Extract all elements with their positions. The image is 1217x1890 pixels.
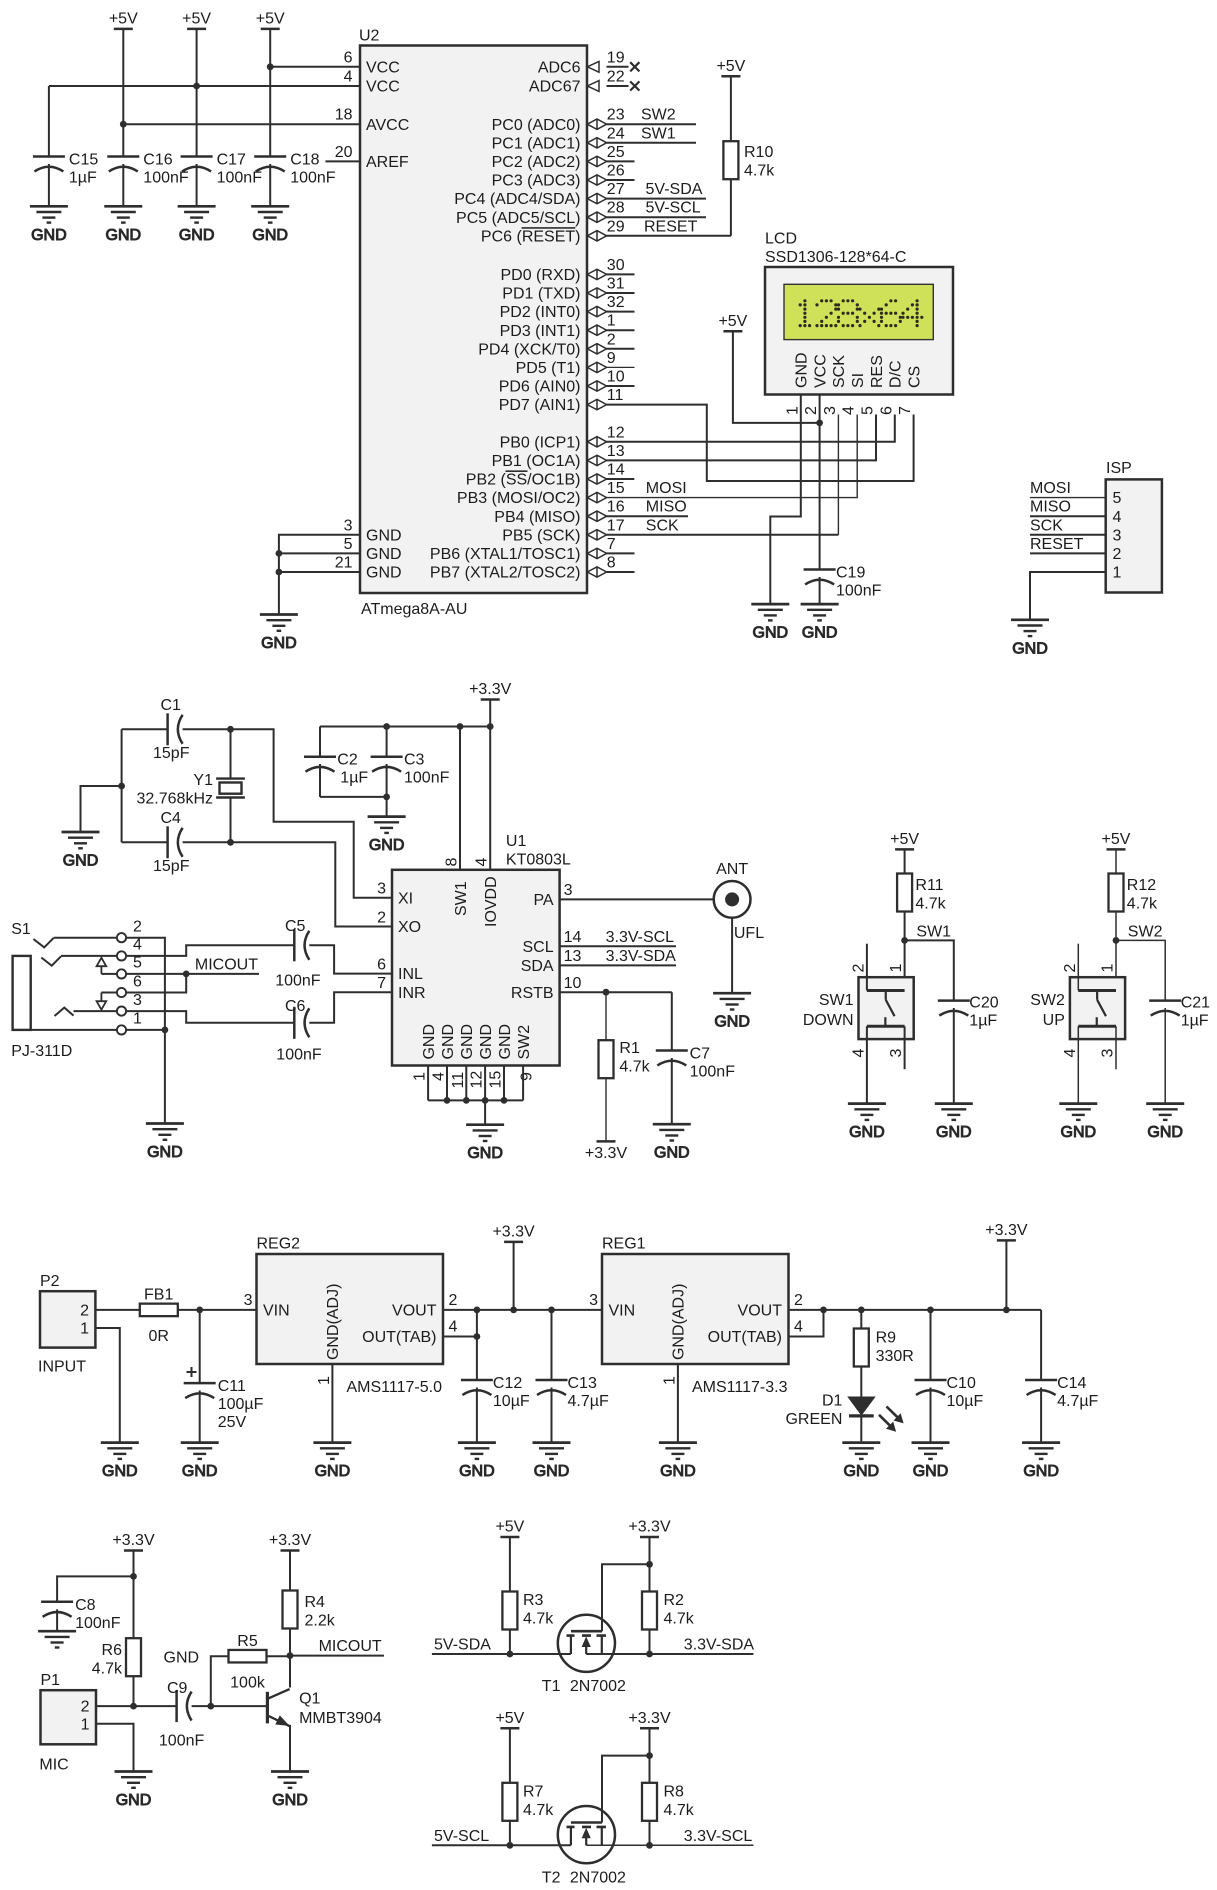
svg-text:VCC: VCC (366, 59, 400, 76)
wire +5V to R12 (1115, 849, 1117, 873)
wire U2 pin19 stub (607, 66, 629, 68)
svg-text:17: 17 (607, 517, 625, 534)
transistor T1 2N7002 (558, 1615, 615, 1672)
svg-text:31: 31 (607, 276, 625, 293)
svg-text:Q1: Q1 (299, 1691, 320, 1708)
junction Y1 bottom (227, 839, 234, 846)
capacitor C1 (168, 713, 183, 745)
svg-text:3: 3 (133, 992, 142, 1009)
capacitor C7 (656, 1051, 688, 1066)
svg-text:1: 1 (81, 1716, 90, 1733)
wire Q1 collector (289, 1656, 291, 1688)
svg-text:4.7k: 4.7k (664, 1802, 695, 1819)
svg-text:C4: C4 (161, 810, 182, 827)
svg-text:SSD1306-128*64-C: SSD1306-128*64-C (765, 249, 906, 266)
U2 pin marker 10 (587, 381, 606, 391)
svg-text:C17: C17 (217, 152, 246, 169)
junction rail SW1 pin (457, 723, 464, 730)
svg-text:+3.3V: +3.3V (269, 1532, 312, 1549)
svg-text:2: 2 (449, 1292, 458, 1309)
svg-text:100nF: 100nF (275, 973, 321, 990)
wire ISP RESET (1030, 552, 1106, 554)
wire S1 bus to ground (164, 1030, 166, 1124)
svg-text:T2: T2 (542, 1869, 561, 1886)
svg-text:MMBT3904: MMBT3904 (299, 1710, 382, 1727)
power +5V (R12) (1102, 831, 1131, 850)
power +5V (C16 column) (109, 10, 138, 29)
capacitor C14 (1025, 1380, 1057, 1395)
svg-text:SCK: SCK (646, 517, 679, 534)
svg-text:SCK: SCK (1030, 517, 1063, 534)
wire S1 pin5 left (101, 973, 117, 975)
svg-text:PB0 (ICP1): PB0 (ICP1) (500, 434, 581, 451)
wire C14 to ground (1040, 1388, 1042, 1443)
svg-text:AMS1117-5.0: AMS1117-5.0 (347, 1379, 443, 1396)
wire C3 column bottom (386, 764, 388, 797)
svg-text:ANT: ANT (716, 861, 748, 878)
wire +3.3V to rail (right) (1005, 1240, 1007, 1310)
wire C12 to ground (476, 1388, 478, 1443)
junction VCC6 / C18 (267, 63, 274, 70)
svg-text:VIN: VIN (263, 1302, 290, 1319)
svg-text:U1: U1 (506, 833, 527, 850)
wire SW1 pin stub (459, 727, 461, 870)
svg-text:RES: RES (869, 355, 886, 388)
wire C18 to ground (269, 164, 271, 206)
junction U1 ground bus (482, 1097, 489, 1104)
ground C16 (104, 206, 142, 244)
S1 switch lever pin 4 (41, 956, 61, 965)
power +3.3V (R8) (628, 1710, 671, 1729)
switch SW1 contacts (867, 991, 905, 1027)
U2 pin marker 17 (587, 530, 606, 540)
svg-text:C13: C13 (568, 1375, 597, 1392)
U2 pin marker 16 (587, 511, 606, 521)
svg-text:SW1: SW1 (453, 881, 470, 916)
power +5V (C17 column) (182, 10, 211, 29)
wire U2 PD stub (607, 348, 635, 350)
svg-text:GND: GND (147, 1144, 183, 1161)
svg-text:PA: PA (533, 892, 553, 909)
svg-text:GND: GND (660, 1463, 696, 1480)
wire net SCK PB5 row (607, 534, 839, 536)
svg-text:1: 1 (133, 1011, 142, 1028)
wire U1 bottom pin stub (522, 1066, 524, 1101)
svg-text:24: 24 (607, 125, 625, 142)
wire +5V column C16 (122, 29, 124, 157)
wire +3.3V rail (320, 726, 490, 728)
ground C15 (30, 206, 68, 244)
svg-text:PC6 (RESET): PC6 (RESET) (481, 228, 581, 245)
wire +5V column C18 (269, 29, 271, 157)
svg-text:16: 16 (607, 499, 625, 516)
svg-text:19: 19 (607, 49, 625, 66)
svg-text:100k: 100k (230, 1675, 266, 1692)
capacitor C16 (107, 157, 139, 172)
svg-text:4: 4 (449, 1318, 458, 1335)
svg-text:GND: GND (31, 227, 67, 244)
svg-text:GND: GND (478, 1024, 495, 1060)
svg-text:C9: C9 (167, 1680, 188, 1697)
svg-text:4.7k: 4.7k (92, 1661, 123, 1678)
svg-text:SDA: SDA (521, 958, 554, 975)
svg-text:18: 18 (335, 107, 353, 124)
svg-text:R10: R10 (744, 144, 773, 161)
capacitor C8 (41, 1602, 73, 1617)
IC U2 ATmega8A-AU body (360, 46, 587, 594)
ground D1 (842, 1443, 880, 1481)
svg-text:C12: C12 (493, 1375, 522, 1392)
wire R12 to switch pin1 (1115, 912, 1117, 991)
wire REG2 GND pin (331, 1364, 333, 1443)
wire net SW1 to C20 (905, 940, 954, 1000)
wire ISP MOSI (1030, 497, 1106, 499)
wire R6 bottom (133, 1676, 135, 1706)
resistor R1 (599, 1040, 614, 1078)
junction R2 / 3.3V-SDA (646, 1651, 653, 1658)
wire SW2 pin4 to ground (1077, 1026, 1079, 1103)
svg-text:29: 29 (607, 218, 625, 235)
wire net MICOUT (Q1) (290, 1655, 384, 1657)
svg-text:GND: GND (936, 1124, 972, 1141)
svg-text:T1: T1 (542, 1678, 561, 1695)
wire S1 pin4 left (61, 955, 117, 957)
svg-text:UFL: UFL (734, 925, 764, 942)
svg-text:XO: XO (398, 919, 421, 936)
junction rail +3.3V right (1003, 1307, 1010, 1314)
svg-text:7: 7 (607, 536, 616, 553)
wire +3.3V to rail (left) (513, 1242, 515, 1310)
svg-text:1µF: 1µF (340, 770, 368, 787)
svg-text:4: 4 (133, 937, 142, 954)
wire REG1 GND pin (677, 1364, 679, 1443)
ground U1 (466, 1125, 504, 1163)
svg-text:GND: GND (106, 227, 142, 244)
svg-text:5: 5 (1113, 490, 1122, 507)
junction VCC4 / C17 (193, 83, 200, 90)
power +3.3V (R4) (269, 1532, 312, 1551)
wire U2 pin8 stub (607, 571, 635, 573)
wire XTAL1 to U1 XI (183, 729, 392, 898)
capacitor C17 (181, 157, 213, 172)
wire R6 top (133, 1576, 135, 1638)
wire net 3.3V-SDA (586, 1653, 753, 1655)
svg-text:C7: C7 (690, 1046, 711, 1063)
ground REG1 (659, 1443, 697, 1481)
LCD display text 128x64 (dot matrix) (799, 299, 924, 327)
svg-text:PD7 (AIN1): PD7 (AIN1) (499, 397, 581, 414)
ground C8 (38, 1631, 76, 1647)
ground C14 (1022, 1443, 1060, 1481)
svg-text:IOVDD: IOVDD (483, 876, 500, 927)
junction AVCC / C16 (120, 121, 127, 128)
resistor R10 (723, 141, 738, 179)
svg-text:PD0 (RXD): PD0 (RXD) (500, 267, 580, 284)
svg-text:ADC6: ADC6 (538, 59, 581, 76)
wire S1 pin1 to bus (126, 1029, 165, 1031)
ground crystal (62, 832, 100, 870)
wire S1 pin6 to pin5 (126, 974, 186, 993)
svg-text:SW1: SW1 (916, 924, 951, 941)
wire R10 to RESET net (730, 179, 732, 236)
wire PD7 to LCD CS (607, 405, 914, 481)
wire LCD VCC column (819, 395, 821, 570)
ground C10 (912, 1443, 950, 1481)
svg-text:2N7002: 2N7002 (570, 1869, 626, 1886)
power +5V (R3) (495, 1519, 524, 1538)
wire Y1 bottom to C4 row (230, 798, 232, 843)
svg-text:GND: GND (366, 527, 402, 544)
wire SW1 pin4 to ground (866, 1026, 868, 1103)
svg-text:XI: XI (398, 890, 413, 907)
ground Q1 (271, 1772, 309, 1810)
wire S1 pin5 to MICOUT (126, 973, 186, 975)
ferrite bead FB1 (140, 1304, 178, 1317)
junction S1 ground bus (162, 1027, 169, 1034)
wire U2 pin26 stub (607, 179, 635, 181)
wire C13 column (551, 1310, 553, 1380)
S1 pin 4 circle (117, 951, 126, 960)
IC U1 KT0803L body (392, 870, 560, 1066)
power +5V (R10) (716, 58, 745, 77)
svg-text:PD1 (TXD): PD1 (TXD) (502, 286, 580, 303)
svg-text:3: 3 (564, 882, 573, 899)
svg-text:GND: GND (102, 1463, 138, 1480)
junction rail R9 (858, 1307, 865, 1314)
ground C20 (935, 1104, 973, 1142)
wire R8 to 3.3V-SCL (649, 1821, 651, 1846)
wire net 3.3V-SCL (560, 945, 676, 947)
svg-text:SW1: SW1 (641, 125, 676, 142)
svg-text:GND: GND (63, 853, 99, 870)
svg-text:GND: GND (164, 1650, 200, 1667)
svg-text:7: 7 (377, 975, 386, 992)
svg-text:S1: S1 (11, 921, 31, 938)
wire C13 to ground (551, 1388, 553, 1443)
svg-text:3: 3 (377, 881, 386, 898)
wire +5V to U2 AVCC (123, 123, 360, 125)
S1 pin 5 circle (117, 969, 126, 978)
regulator REG1 AMS1117-3.3 body (602, 1254, 789, 1364)
svg-text:2: 2 (377, 909, 386, 926)
svg-text:+3.3V: +3.3V (112, 1532, 155, 1549)
wire C21 to ground (1164, 1008, 1166, 1104)
svg-text:C2: C2 (337, 752, 358, 769)
svg-text:SW1: SW1 (819, 992, 854, 1009)
svg-text:8: 8 (444, 858, 461, 867)
svg-text:GND: GND (179, 227, 215, 244)
svg-text:100nF: 100nF (404, 770, 450, 787)
svg-text:4.7k: 4.7k (664, 1611, 695, 1628)
svg-text:26: 26 (607, 163, 625, 180)
svg-text:INR: INR (398, 985, 426, 1002)
svg-text:GND: GND (421, 1024, 438, 1060)
junction R7 / 5V-SCL (507, 1842, 514, 1849)
svg-text:7: 7 (897, 406, 914, 415)
svg-text:+3.3V: +3.3V (469, 681, 512, 698)
junction rail +3.3V left (510, 1307, 517, 1314)
svg-text:GND: GND (459, 1463, 495, 1480)
S1 tip contact arrow (up) (97, 958, 107, 974)
junction REG1 tab (820, 1307, 827, 1314)
junction crystal gnd branch (118, 783, 125, 790)
svg-text:15: 15 (488, 1071, 505, 1089)
svg-text:VOUT: VOUT (738, 1302, 783, 1319)
junction net SW2 (1113, 937, 1120, 944)
junction RSTB R1 C7 (603, 989, 610, 996)
svg-text:GND: GND (1147, 1124, 1183, 1141)
svg-text:PC1 (ADC1): PC1 (ADC1) (492, 135, 581, 152)
svg-text:C16: C16 (143, 152, 172, 169)
svg-text:5V-SCL: 5V-SCL (434, 1828, 489, 1845)
S1 switch lever pin 2 (34, 938, 54, 947)
svg-text:14: 14 (607, 462, 625, 479)
resistor R4 (283, 1591, 298, 1629)
wire U1 ground bus (428, 1099, 523, 1101)
power +5V (C18 column) (256, 10, 285, 29)
svg-text:MOSI: MOSI (1030, 480, 1071, 497)
wire U1 bottom pin stub (484, 1066, 486, 1101)
svg-text:GREEN: GREEN (785, 1411, 842, 1428)
ground ISP (1011, 620, 1049, 658)
junction C9 / R5 (207, 1703, 214, 1710)
junction C11 (196, 1307, 203, 1314)
svg-text:25V: 25V (218, 1414, 247, 1431)
connector ISP body (1106, 479, 1162, 592)
wire U2 pin22 stub (607, 85, 629, 87)
svg-text:R5: R5 (237, 1633, 258, 1650)
svg-text:GND: GND (315, 1463, 351, 1480)
svg-text:1: 1 (316, 1376, 333, 1385)
svg-text:R8: R8 (664, 1783, 685, 1800)
svg-text:OUT(TAB): OUT(TAB) (362, 1329, 436, 1346)
connector P1 body (41, 1690, 97, 1744)
ground S1 (146, 1124, 184, 1162)
wire R3 to 5V-SDA (509, 1630, 511, 1655)
svg-text:REG1: REG1 (602, 1236, 646, 1253)
wire R5 right (267, 1655, 291, 1657)
svg-text:3: 3 (344, 517, 353, 534)
svg-text:13: 13 (564, 948, 582, 965)
wire ISP SCK (1030, 534, 1106, 536)
svg-text:PB6 (XTAL1/TOSC1): PB6 (XTAL1/TOSC1) (430, 546, 581, 563)
svg-text:1: 1 (1113, 565, 1122, 582)
wire C2 column top (319, 727, 321, 757)
svg-text:GND: GND (714, 1014, 750, 1031)
wire +3.3V to R8 (649, 1728, 651, 1783)
junction LCD VCC / +5V (816, 420, 823, 427)
svg-text:RSTB: RSTB (511, 985, 554, 1002)
svg-text:VCC: VCC (366, 79, 400, 96)
wire R11 to switch pin1 (904, 912, 906, 991)
ground C2 C3 (368, 817, 406, 855)
svg-text:5V-SDA: 5V-SDA (434, 1637, 491, 1654)
svg-text:1: 1 (1100, 964, 1117, 973)
svg-text:PC2 (ADC2): PC2 (ADC2) (492, 154, 581, 171)
resistor R5 (229, 1650, 267, 1663)
svg-text:REG2: REG2 (257, 1236, 301, 1253)
resistor R11 (897, 874, 912, 912)
svg-text:25: 25 (607, 144, 625, 161)
svg-text:GND: GND (654, 1145, 690, 1162)
svg-text:1: 1 (888, 964, 905, 973)
svg-text:+5V: +5V (716, 58, 745, 75)
svg-text:32: 32 (607, 294, 625, 311)
wire U2 GND pins to ground (279, 535, 360, 615)
capacitor C9 (177, 1690, 192, 1722)
svg-text:ATmega8A-AU: ATmega8A-AU (361, 601, 467, 618)
svg-text:10µF: 10µF (493, 1393, 530, 1410)
wire net MOSI PB3 to LCD SI (607, 415, 858, 498)
svg-text:SI: SI (850, 373, 867, 388)
U2 pin marker 14 (587, 474, 606, 484)
wire U2 pin21 to ground bus (279, 571, 360, 573)
connector S1 jack body (13, 956, 31, 1030)
svg-text:20: 20 (335, 144, 353, 161)
svg-text:100nF: 100nF (690, 1064, 736, 1081)
svg-text:GND: GND (272, 1792, 308, 1809)
junction U2 gnd bus 2 (276, 569, 283, 576)
svg-text:MOSI: MOSI (646, 480, 687, 497)
svg-text:22: 22 (607, 69, 625, 86)
svg-text:DOWN: DOWN (803, 1012, 854, 1029)
wire P1 pin1 to ground (96, 1724, 134, 1772)
wire REG2 VOUT rail to REG1 VIN (443, 1309, 602, 1311)
wire +5V to R7 (509, 1728, 511, 1783)
junction MICOUT node Q1 (287, 1652, 294, 1659)
svg-text:PD3 (INT1): PD3 (INT1) (500, 323, 581, 340)
svg-text:C15: C15 (69, 152, 98, 169)
wire SW2 pin3 stub (1115, 1026, 1117, 1069)
wire T2 gate (602, 1756, 650, 1823)
wire S1 pin2 (54, 937, 117, 939)
svg-text:C6: C6 (285, 998, 306, 1015)
wire C1 left (122, 728, 168, 730)
wire C7 to ground (671, 1058, 673, 1124)
ground C11 (181, 1443, 219, 1481)
U2 pin marker 8 (587, 567, 606, 577)
svg-text:INL: INL (398, 966, 423, 983)
svg-text:SW2: SW2 (641, 107, 676, 124)
power +3.3V (REG1 out) (985, 1222, 1028, 1241)
wire net 5V-SCL (432, 1844, 571, 1846)
junction U1 ground bus (501, 1097, 508, 1104)
svg-text:Y1: Y1 (193, 772, 213, 789)
capacitor C12 (461, 1380, 493, 1395)
svg-text:P1: P1 (41, 1672, 61, 1689)
wire +5V to R11 (904, 849, 906, 873)
wire XTAL2 to U1 XO (183, 842, 392, 926)
svg-text:C21: C21 (1181, 995, 1210, 1012)
svg-text:2: 2 (803, 406, 820, 415)
svg-text:+3.3V: +3.3V (985, 1222, 1028, 1239)
wire T1 gate (602, 1564, 650, 1631)
svg-text:R12: R12 (1127, 877, 1156, 894)
wire net SW2 from pin23 (607, 123, 697, 125)
svg-text:GND: GND (252, 227, 288, 244)
svg-text:330R: 330R (876, 1348, 914, 1365)
wire C19 to ground (819, 577, 821, 604)
resistor R12 (1109, 874, 1124, 912)
svg-text:+5V: +5V (718, 313, 747, 330)
svg-text:KT0803L: KT0803L (506, 852, 571, 869)
svg-text:3.3V-SCL: 3.3V-SCL (684, 1828, 753, 1845)
C11 plus sign (187, 1367, 197, 1377)
switch SW2 contacts (1078, 991, 1116, 1027)
wire U1 PA to ANT (560, 898, 714, 900)
wire U1 RSTB (560, 991, 672, 993)
wire C5 to U1 INL (309, 945, 392, 973)
